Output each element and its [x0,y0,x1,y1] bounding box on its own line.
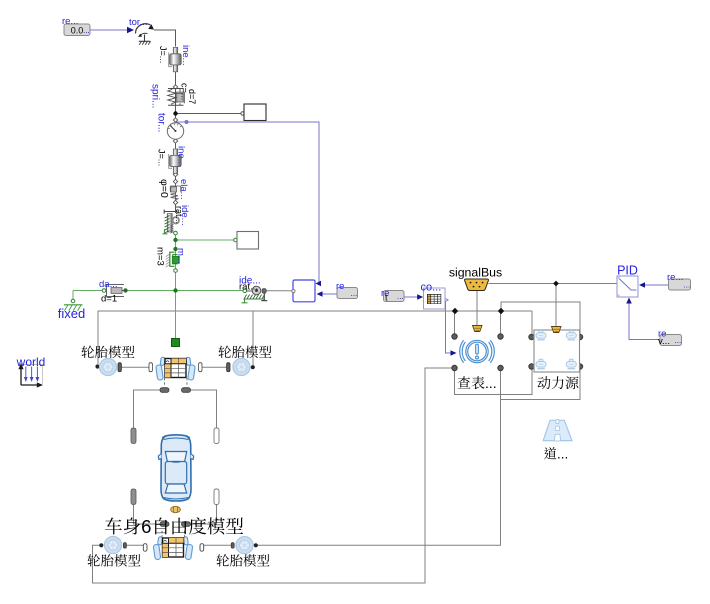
svg-text:tor...: tor... [156,113,167,132]
svg-text:spri...: spri... [150,84,161,108]
svg-text:co...: co... [421,282,442,294]
svg-text:world: world [16,355,46,369]
svg-text:rat...: rat... [174,206,184,224]
svg-text:ine...: ine... [176,146,187,167]
svg-text:m...: m... [175,248,186,264]
svg-text:...: ... [351,289,358,298]
svg-text:rat...: rat... [239,282,258,293]
svg-text:...: ... [83,26,90,35]
svg-text:φ=0: φ=0 [158,179,170,198]
svg-text:6: 6 [141,516,151,537]
svg-text:d=1: d=1 [101,294,117,305]
svg-text:re: re [336,281,344,292]
svg-text:...: ... [485,375,497,391]
svg-text:re...: re... [667,272,683,283]
svg-text:tor...: tor... [129,17,147,28]
svg-text:...: ... [684,281,691,290]
svg-text:...: ... [557,447,568,462]
svg-text:fixed: fixed [58,306,85,321]
svg-text:da...: da... [99,279,118,290]
svg-text:PID: PID [617,264,638,278]
svg-text:...: ... [675,336,682,345]
svg-text:signalBus: signalBus [449,266,502,280]
svg-text:m=3: m=3 [155,247,166,266]
svg-text:...: ... [397,292,404,301]
svg-text:0.0: 0.0 [71,26,84,36]
svg-text:ela...: ela... [178,179,189,200]
svg-text:v...: v... [658,336,670,347]
svg-text:J=...: J=... [158,46,168,63]
svg-text:J=...: J=... [157,149,167,166]
svg-text:ine...: ine... [180,45,191,66]
svg-text:d=7: d=7 [187,89,197,104]
